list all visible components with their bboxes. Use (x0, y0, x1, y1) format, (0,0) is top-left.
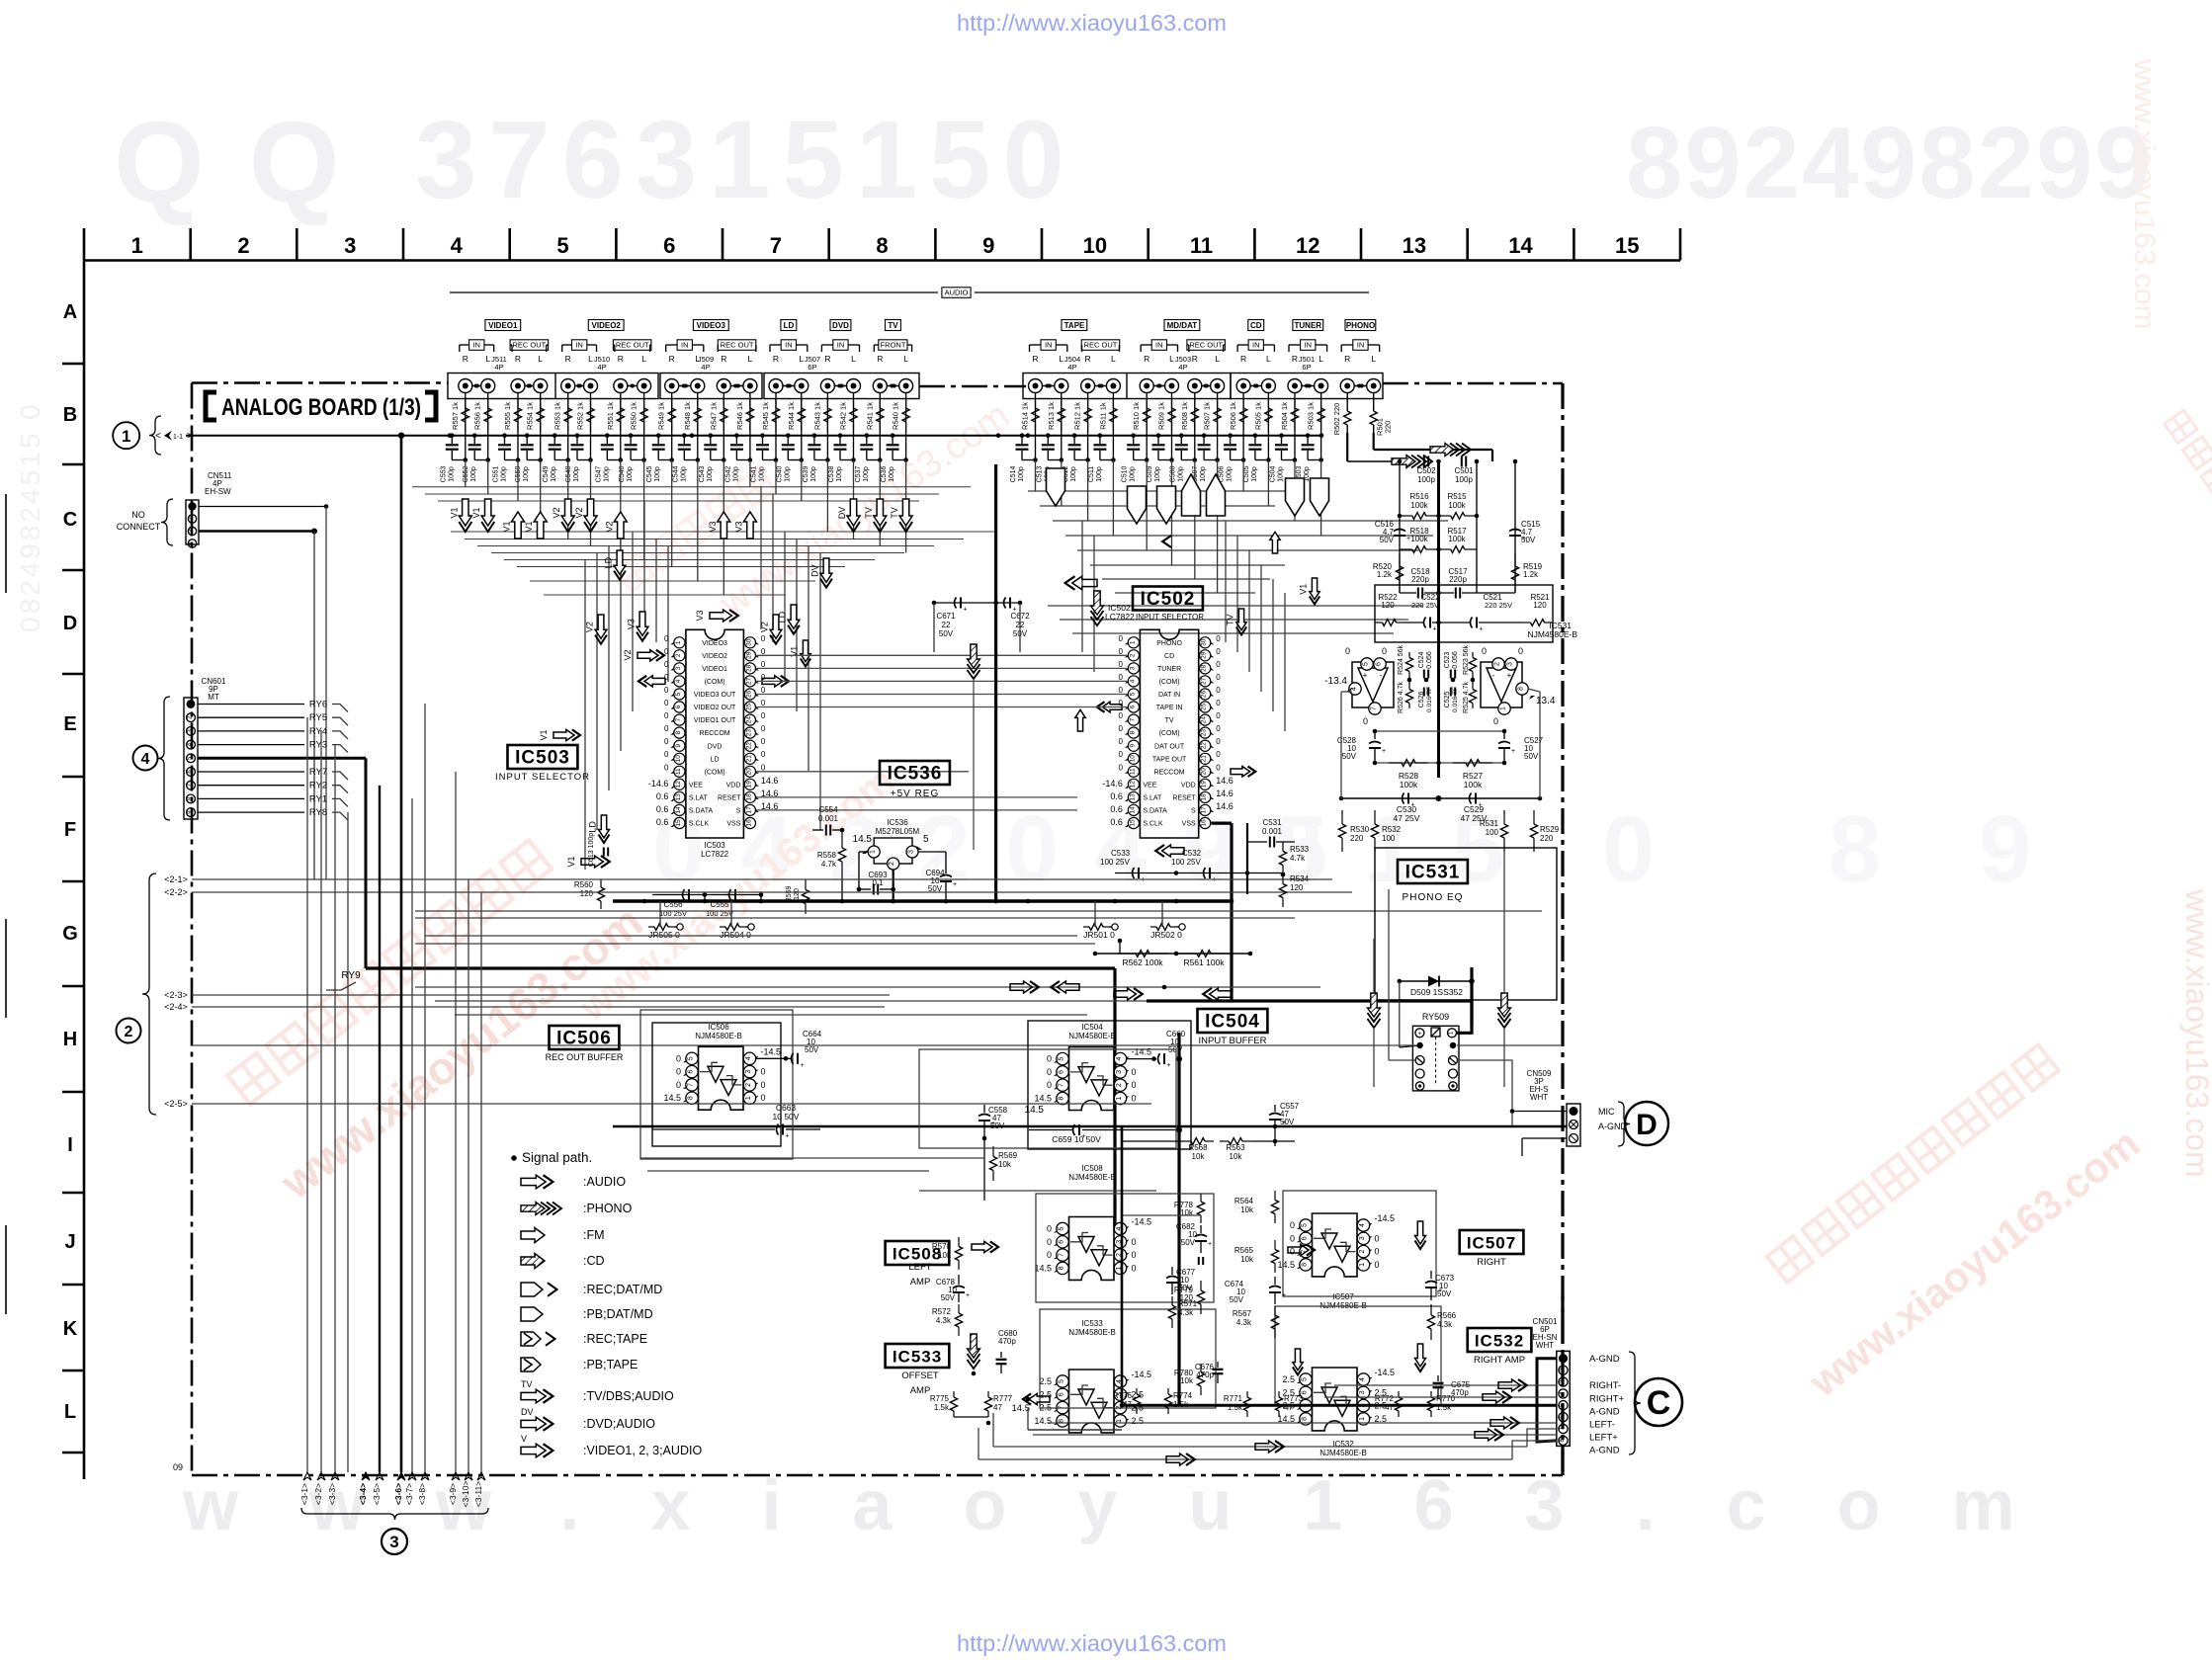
svg-text:+: + (964, 607, 968, 614)
svg-text:220: 220 (1384, 421, 1393, 434)
svg-text:13: 13 (675, 793, 682, 801)
svg-text:D: D (63, 613, 77, 634)
svg-text:L: L (485, 354, 490, 364)
resistor R513 1k with signal wire (1061, 392, 1063, 436)
svg-text:VIDEO3: VIDEO3 (702, 640, 727, 647)
svg-text::CD: :CD (583, 1254, 605, 1268)
wire heavy run to relay (1147, 999, 1472, 1002)
svg-text:0: 0 (1118, 737, 1123, 746)
svg-text:C536: C536 (881, 466, 888, 483)
net label AUDIO with header line (450, 291, 938, 293)
svg-text:14.5: 14.5 (853, 834, 873, 845)
svg-text:220 25V: 220 25V (1411, 601, 1439, 610)
svg-text:4: 4 (1129, 679, 1136, 683)
svg-text:100k: 100k (1400, 780, 1418, 789)
svg-text:+: + (1282, 1292, 1286, 1299)
svg-text:AMP: AMP (910, 1385, 931, 1396)
svg-text:1: 1 (1116, 1096, 1123, 1100)
capacitor C671 22 50V and capacitor C672 22 50V (932, 601, 937, 606)
svg-text:100p: 100p (863, 466, 870, 482)
svg-text:20: 20 (1201, 768, 1208, 776)
svg-text:LD: LD (588, 821, 598, 833)
svg-text:EH-SW: EH-SW (205, 487, 231, 496)
svg-text:S.LAT: S.LAT (1143, 795, 1162, 802)
svg-text:50V: 50V (805, 1045, 819, 1054)
svg-text:1: 1 (122, 427, 130, 446)
svg-text:5: 5 (1059, 1057, 1065, 1061)
svg-text:14.5: 14.5 (1012, 1403, 1031, 1414)
svg-text:4P: 4P (1178, 363, 1187, 372)
svg-text:14.6: 14.6 (1216, 776, 1234, 786)
svg-text:14.6: 14.6 (761, 776, 779, 786)
svg-text:4P: 4P (1067, 363, 1076, 372)
svg-text:4: 4 (1351, 687, 1358, 691)
svg-text:1.5k: 1.5k (934, 1403, 950, 1412)
svg-text:100p: 100p (1251, 466, 1258, 482)
svg-text:R: R (1085, 354, 1091, 364)
svg-text:0: 0 (1118, 634, 1123, 643)
svg-text:0: 0 (1216, 724, 1221, 733)
svg-text:B: B (63, 404, 77, 426)
svg-text:S.DATA: S.DATA (1143, 808, 1167, 815)
svg-text:CONNECT: CONNECT (117, 522, 161, 532)
svg-text:IC504: IC504 (1081, 1023, 1103, 1032)
svg-text:8: 8 (1059, 1266, 1065, 1270)
svg-text:R566: R566 (1437, 1311, 1457, 1320)
svg-text:100p: 100p (603, 466, 610, 482)
IC IC503 LC7822 30-pin selector chip body with numbered pins (686, 629, 744, 838)
svg-text:RY5: RY5 (309, 712, 327, 723)
resistor R556 1k with signal wire (487, 392, 489, 436)
svg-text:S.DATA: S.DATA (689, 808, 714, 815)
svg-text:892498299: 892498299 (1626, 106, 2154, 219)
label box IC508 (886, 1241, 950, 1265)
svg-text:4: 4 (451, 233, 464, 258)
svg-text:R772: R772 (1375, 1394, 1395, 1403)
connector header CD (1248, 320, 1264, 331)
svg-text:A: A (63, 301, 77, 323)
svg-text:LEFT+: LEFT+ (1589, 1433, 1618, 1444)
resistor R562 100k and resistor R561 100k (1095, 953, 1250, 955)
svg-text:VIDEO1: VIDEO1 (702, 666, 727, 673)
svg-text:AUDIO: AUDIO (945, 289, 969, 297)
svg-text:WHT: WHT (1530, 1093, 1548, 1102)
svg-text:RESET: RESET (718, 795, 741, 802)
svg-text:100p: 100p (573, 466, 580, 482)
svg-text:0: 0 (1493, 716, 1498, 726)
svg-text:L: L (64, 1401, 76, 1423)
capacitor C505 100p (1253, 433, 1258, 438)
svg-text::TV/DBS;AUDIO: :TV/DBS;AUDIO (583, 1389, 674, 1403)
connector header TUNER J501 (1293, 320, 1323, 331)
svg-text:V1: V1 (539, 729, 549, 740)
svg-text:R508 1k: R508 1k (1180, 402, 1189, 430)
svg-text:TV: TV (1226, 614, 1235, 625)
svg-text:L: L (851, 354, 856, 364)
node terminals 3-1 through 3-11 with brace (303, 1472, 311, 1480)
svg-text:1: 1 (870, 850, 877, 854)
connector header TAPE J504 (1062, 320, 1087, 331)
capacitor C507 100p (1202, 433, 1207, 438)
svg-text:JR504 0: JR504 0 (720, 930, 751, 940)
svg-text:4: 4 (745, 1056, 752, 1060)
svg-text:5: 5 (1059, 1226, 1065, 1230)
svg-text:1: 1 (1116, 1419, 1123, 1423)
svg-text:15: 15 (1129, 819, 1136, 827)
resistor R552 1k with signal wire (590, 392, 592, 436)
svg-text:14.5: 14.5 (1034, 1263, 1052, 1273)
capacitor C509 100p (1156, 433, 1161, 438)
svg-text:50V: 50V (1524, 752, 1539, 761)
svg-text:0: 0 (664, 660, 669, 669)
wire heavy A-GND loop at CN501 (1537, 1359, 1557, 1442)
svg-text:R555 1k: R555 1k (503, 402, 512, 430)
svg-text:IC536: IC536 (887, 818, 908, 827)
svg-text:<3-4>: <3-4> (358, 1483, 368, 1505)
svg-text:0: 0 (1132, 1263, 1137, 1273)
svg-text::VIDEO1, 2, 3;AUDIO: :VIDEO1, 2, 3;AUDIO (583, 1444, 702, 1457)
svg-text:30: 30 (1201, 638, 1208, 646)
svg-text:100: 100 (1382, 834, 1396, 843)
svg-text:+: + (1282, 1120, 1286, 1126)
svg-text:0: 0 (1216, 737, 1221, 746)
svg-text:10k: 10k (998, 1160, 1012, 1169)
resistor R550 1k with signal wire (643, 392, 645, 436)
svg-text:R533: R533 (1290, 845, 1310, 854)
capacitor C549 100p (553, 433, 557, 438)
svg-text:+: + (966, 1292, 970, 1299)
svg-text:10: 10 (1083, 233, 1107, 258)
svg-text:0: 0 (1375, 1260, 1380, 1270)
svg-text:TV: TV (890, 507, 899, 519)
svg-text:C545: C545 (646, 466, 653, 483)
svg-text:3: 3 (1129, 666, 1136, 670)
svg-text:R548 1k: R548 1k (683, 402, 692, 430)
label box IC531 (1398, 860, 1468, 883)
svg-text:PHONO EQ: PHONO EQ (1403, 892, 1464, 903)
svg-text:C539: C539 (803, 466, 809, 483)
svg-text:3: 3 (389, 1533, 398, 1551)
svg-text:100 25V: 100 25V (1171, 858, 1201, 867)
svg-text:1.2k: 1.2k (1523, 570, 1539, 579)
svg-text:14: 14 (675, 806, 682, 814)
svg-text:NJM4580E-B: NJM4580E-B (695, 1032, 742, 1040)
svg-text::PB;DAT/MD: :PB;DAT/MD (583, 1307, 653, 1321)
capacitor C541 100p (760, 433, 765, 438)
capacitor C539 100p (812, 433, 817, 438)
svg-text:21: 21 (1201, 755, 1208, 763)
svg-text:CD: CD (1164, 653, 1174, 660)
svg-text:R777: R777 (993, 1394, 1013, 1403)
svg-text:0: 0 (761, 1067, 766, 1077)
svg-text:R540 1k: R540 1k (892, 402, 900, 430)
svg-text:100p: 100p (1177, 466, 1184, 482)
svg-text:0: 0 (664, 750, 669, 759)
label box IC507 (1460, 1230, 1524, 1254)
capacitor C545 100p (656, 433, 661, 438)
svg-text:0.6: 0.6 (656, 817, 669, 827)
border ruler with column numbers 1-15 and row letters A-L (84, 259, 1680, 262)
svg-text:C: C (63, 509, 77, 531)
svg-text:5: 5 (1302, 1223, 1309, 1227)
capacitor C510 100p (1131, 433, 1136, 438)
svg-text:TV: TV (888, 321, 898, 330)
svg-text:13: 13 (1403, 233, 1426, 258)
svg-text:R774: R774 (1173, 1391, 1193, 1400)
wire rows between IC503 and IC502 (756, 654, 1127, 656)
svg-text:IN: IN (837, 341, 845, 350)
svg-text:<3-2>: <3-2> (313, 1483, 323, 1505)
svg-text:0: 0 (1132, 1067, 1137, 1077)
svg-text:NJM4580E-B: NJM4580E-B (1319, 1449, 1367, 1457)
svg-text:V2: V2 (574, 507, 584, 518)
circled reference C (1635, 1378, 1682, 1426)
svg-text:0: 0 (676, 1080, 681, 1090)
wire thin runs 2-3 2-4 band (192, 994, 890, 996)
svg-text:+: + (1433, 626, 1437, 633)
svg-text:OFFSET: OFFSET (901, 1371, 939, 1381)
svg-text:12: 12 (675, 781, 682, 789)
svg-text:REC OUT: REC OUT (721, 341, 754, 350)
svg-text:0.001: 0.001 (818, 814, 839, 823)
svg-text:30: 30 (745, 638, 752, 646)
resistor R503 1k with signal wire (1320, 392, 1322, 436)
svg-text:100p: 100p (784, 466, 791, 482)
svg-text:3: 3 (1116, 1070, 1123, 1074)
label box IC506 (550, 1026, 620, 1049)
svg-text:R: R (877, 354, 883, 364)
diode D509 1SS352 (1400, 980, 1472, 982)
connector strips J511 J510 J509 J507 J504 J503 J501 with RCA pins (448, 374, 658, 399)
svg-text:R572: R572 (932, 1307, 952, 1316)
capacitor C533 100 25V and capacitor C532 100 25V (1115, 873, 1285, 874)
svg-text:3: 3 (745, 1070, 752, 1074)
svg-text:100p: 100p (1070, 466, 1077, 482)
svg-text:<3-9>: <3-9> (448, 1483, 458, 1505)
svg-text:V3: V3 (695, 610, 705, 621)
svg-text:R: R (1032, 354, 1038, 364)
svg-text:0: 0 (761, 711, 766, 720)
svg-text:R558: R558 (817, 851, 837, 860)
svg-text:20: 20 (745, 768, 752, 776)
svg-text:+: + (1480, 626, 1484, 633)
svg-text:8: 8 (1059, 1419, 1065, 1423)
svg-text:0.001: 0.001 (1262, 827, 1283, 836)
capacitor C508 100p (1179, 433, 1184, 438)
svg-text:VIDEO3: VIDEO3 (697, 321, 726, 330)
svg-text:+: + (786, 1133, 790, 1140)
connector header TV J507 (886, 320, 901, 331)
svg-text:47 25V: 47 25V (1394, 813, 1420, 823)
capacitor C512 100p (1072, 433, 1077, 438)
svg-text:L: L (1266, 354, 1271, 364)
svg-text:R511 1k: R511 1k (1098, 402, 1107, 430)
svg-text:7: 7 (770, 233, 782, 258)
capacitor C537 100p (865, 433, 870, 438)
signal arrows row G (1010, 981, 1032, 993)
svg-text:3: 3 (675, 666, 682, 670)
svg-text:V2: V2 (760, 622, 770, 632)
op-amp IC508 NJM4580E-B dual package with pins 1-8 (1069, 1217, 1115, 1281)
svg-text:R770: R770 (1436, 1394, 1456, 1403)
svg-text:REC OUT: REC OUT (1189, 341, 1223, 350)
svg-text:IC532: IC532 (1475, 1332, 1524, 1351)
svg-text:R771: R771 (1224, 1394, 1243, 1403)
svg-text:R543 1k: R543 1k (812, 402, 821, 430)
svg-text:4: 4 (141, 751, 150, 768)
resistor R512 1k with signal wire (1087, 392, 1089, 436)
capacitor C511 100p (1098, 433, 1103, 438)
svg-text:0.056: 0.056 (1452, 651, 1459, 669)
svg-text:S: S (1191, 808, 1196, 815)
svg-text:6: 6 (675, 705, 682, 708)
wire heavy VSS run (1212, 821, 1233, 824)
svg-text:0: 0 (1118, 673, 1123, 682)
svg-text:R775: R775 (930, 1394, 950, 1403)
svg-text:V3: V3 (627, 619, 637, 629)
svg-text:100p: 100p (836, 466, 843, 482)
svg-text:TV: TV (521, 1379, 533, 1389)
svg-text:R547 1k: R547 1k (709, 402, 718, 430)
connector header MD/DAT J503 (1164, 320, 1200, 331)
svg-text:0: 0 (1047, 1224, 1052, 1234)
svg-text:IN: IN (472, 341, 480, 350)
svg-text:4P: 4P (701, 363, 710, 372)
svg-text:4.3k: 4.3k (1236, 1318, 1252, 1327)
svg-text:<3-1>: <3-1> (299, 1483, 309, 1505)
resistor R505 1k with signal wire (1267, 392, 1269, 436)
svg-text:C524: C524 (1418, 652, 1425, 669)
svg-text:100k: 100k (1464, 780, 1483, 789)
svg-text:10k: 10k (1240, 1255, 1254, 1264)
svg-text:R: R (1240, 354, 1246, 364)
svg-text:VSS: VSS (726, 821, 740, 828)
svg-text:L: L (1215, 354, 1220, 364)
svg-text::REC;TAPE: :REC;TAPE (583, 1332, 647, 1346)
svg-text:<2-5>: <2-5> (164, 1099, 188, 1109)
svg-text:http://www.xiaoyu163.com: http://www.xiaoyu163.com (957, 10, 1227, 36)
resistor R522 120 capacitor C522 220 25V capacitor C521 220 25V resistor R521 120 (1375, 585, 1553, 642)
svg-text:120: 120 (794, 888, 801, 900)
svg-text:0: 0 (1118, 686, 1123, 695)
svg-text:10 50V: 10 50V (773, 1112, 800, 1122)
svg-text:IC503: IC503 (515, 748, 570, 769)
svg-text:0: 0 (1047, 1237, 1052, 1247)
svg-text:24: 24 (1201, 716, 1208, 724)
svg-text:0: 0 (1216, 634, 1221, 643)
svg-text:R562 100k: R562 100k (1122, 957, 1163, 967)
svg-text:10: 10 (1129, 755, 1136, 763)
svg-text:0: 0 (1118, 647, 1123, 656)
svg-text:4.3k: 4.3k (1178, 1308, 1194, 1317)
svg-text:0: 0 (1047, 1054, 1052, 1064)
svg-text:6: 6 (688, 1070, 695, 1074)
svg-text:9: 9 (1129, 744, 1136, 748)
svg-text:100p: 100p (1455, 475, 1473, 484)
svg-text:RY7: RY7 (309, 767, 327, 778)
svg-text:27: 27 (1201, 677, 1208, 685)
legend signal path arrow key (511, 1155, 517, 1161)
svg-text:50V: 50V (1521, 536, 1536, 544)
svg-text:R554 1k: R554 1k (526, 402, 535, 430)
svg-text:10k: 10k (1230, 1152, 1243, 1161)
svg-text:120: 120 (1290, 883, 1304, 892)
svg-text:5: 5 (675, 692, 682, 696)
svg-text:4: 4 (1359, 1377, 1366, 1381)
svg-text:<2-3>: <2-3> (164, 990, 188, 1000)
svg-text:R524 56k: R524 56k (1398, 645, 1404, 675)
capacitor C547 100p (605, 433, 610, 438)
svg-text:TUNER: TUNER (1295, 321, 1322, 330)
svg-text:VIDEO2: VIDEO2 (592, 321, 622, 330)
svg-text:0: 0 (1118, 724, 1123, 733)
svg-text:14: 14 (1129, 806, 1136, 814)
svg-text:INPUT SELECTOR: INPUT SELECTOR (1136, 613, 1204, 622)
svg-text:0: 0 (676, 1067, 681, 1077)
svg-text:VIDEO1 OUT: VIDEO1 OUT (694, 717, 736, 724)
svg-text:VDD: VDD (726, 782, 741, 789)
svg-text:RY9: RY9 (341, 970, 361, 981)
svg-text:-14.5: -14.5 (761, 1046, 782, 1056)
jumper resistor JR504 0 ohm (720, 926, 725, 928)
svg-text:S: S (736, 808, 741, 815)
svg-text:29: 29 (745, 651, 752, 659)
svg-text:0.016 TF: 0.016 TF (1426, 687, 1433, 712)
svg-text:R506 1k: R506 1k (1229, 402, 1237, 430)
resistor R546 1k with signal wire (749, 392, 751, 436)
svg-text:R512 1k: R512 1k (1073, 402, 1082, 430)
svg-text:IN: IN (1155, 341, 1163, 350)
circled reference D (1625, 1102, 1668, 1145)
resistor R514 1k with signal wire (1035, 392, 1037, 436)
jumper resistor JR502 0 ohm (1150, 926, 1156, 928)
resistor R504 1k with signal wire (1294, 392, 1296, 436)
resistor R508 1k with signal wire (1194, 392, 1196, 436)
svg-text:0: 0 (761, 699, 766, 707)
svg-text:Signal path.: Signal path. (522, 1150, 592, 1165)
svg-text:2: 2 (675, 653, 682, 657)
wire loops around IC506 and IC504 (652, 1023, 781, 1146)
svg-text:0.6: 0.6 (656, 804, 669, 814)
circled reference 3 (382, 1529, 407, 1554)
svg-text:VDD: VDD (1181, 782, 1196, 789)
svg-text:A-GND: A-GND (1589, 1354, 1620, 1365)
svg-text:50V: 50V (1230, 1295, 1244, 1304)
connector header VIDEO1 J511 (485, 320, 521, 331)
capacitor C542 100p (734, 433, 739, 438)
svg-text:R503 1k: R503 1k (1307, 402, 1316, 430)
svg-text::DVD;AUDIO: :DVD;AUDIO (583, 1417, 655, 1431)
svg-text:C540: C540 (776, 466, 783, 483)
svg-text:0: 0 (664, 724, 669, 733)
svg-text:(COM): (COM) (705, 679, 725, 686)
svg-text:100p: 100p (759, 466, 766, 482)
resistor R528 100k and resistor R527 100k (1375, 762, 1504, 764)
svg-text:0: 0 (1216, 686, 1221, 695)
svg-text::FM: :FM (583, 1228, 605, 1242)
svg-text:R510 1k: R510 1k (1132, 402, 1141, 430)
svg-text:DAT IN: DAT IN (1158, 692, 1180, 699)
svg-text:ANALOG BOARD (1/3): ANALOG BOARD (1/3) (221, 394, 421, 421)
svg-text:R560: R560 (574, 880, 594, 889)
svg-text:C541: C541 (751, 466, 758, 483)
resistor R507 1k with signal wire (1217, 392, 1219, 436)
wire RY9 heavy bus (366, 966, 1115, 969)
resistor R509 1k with signal wire (1171, 392, 1173, 436)
svg-text:C549: C549 (543, 466, 550, 483)
svg-text:VIDEO2: VIDEO2 (702, 653, 727, 660)
svg-text:-14.6: -14.6 (1102, 779, 1123, 789)
